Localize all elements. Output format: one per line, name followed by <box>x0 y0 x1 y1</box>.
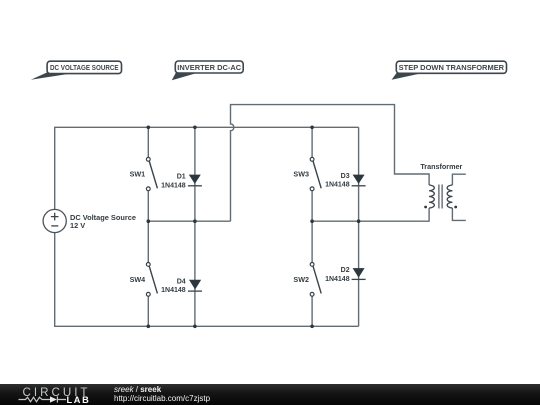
svg-text:SW3: SW3 <box>293 170 309 179</box>
voltage source V1 <box>43 209 66 232</box>
diode D3 <box>352 175 366 186</box>
wire SW2 branch <box>311 221 313 326</box>
wire D3 D2 branch <box>358 127 360 326</box>
wire bottom rail <box>55 233 359 327</box>
svg-text:Transformer: Transformer <box>420 162 462 171</box>
callout INVERTER DC-AC <box>172 61 243 80</box>
voltage source label <box>70 213 136 230</box>
wire node A vertical with hop over top rail <box>230 105 429 222</box>
svg-text:1N4148: 1N4148 <box>161 182 186 189</box>
wire left mid node <box>148 220 230 222</box>
transformer T1 phase dots <box>424 206 427 209</box>
label D4 1N4148 <box>161 278 186 294</box>
svg-text:1N4148: 1N4148 <box>325 182 350 189</box>
svg-text:12 V: 12 V <box>70 221 85 230</box>
callout STEP DOWN TRANSFORMER <box>392 61 507 79</box>
svg-text:DC VOLTAGE SOURCE: DC VOLTAGE SOURCE <box>50 63 119 72</box>
diode D1 <box>188 175 202 186</box>
wire SW1 branch <box>147 127 149 221</box>
svg-text:D1: D1 <box>177 174 186 181</box>
svg-text:LAB: LAB <box>67 395 91 405</box>
svg-text:D3: D3 <box>341 173 350 180</box>
switch SW1 <box>146 157 157 190</box>
svg-text:INVERTER DC-AC: INVERTER DC-AC <box>177 63 241 72</box>
wire top rail and left rail <box>55 127 359 209</box>
svg-text:1N4148: 1N4148 <box>325 276 350 283</box>
svg-text:SW1: SW1 <box>130 170 146 179</box>
svg-text:1N4148: 1N4148 <box>161 287 186 294</box>
callout DC VOLTAGE SOURCE <box>31 61 122 79</box>
wire SW3 branch <box>311 127 313 221</box>
CircuitLab logo <box>0 384 105 405</box>
switch SW3 <box>310 157 321 190</box>
diode D4 <box>188 280 202 291</box>
wire transformer secondary stubs <box>452 174 465 220</box>
transformer T1 core <box>439 185 442 209</box>
wire right mid node to transformer primary bottom <box>312 208 429 221</box>
label D1 1N4148 <box>161 174 186 190</box>
wire SW4 branch <box>147 221 149 326</box>
transformer T1 secondary coil <box>447 185 452 208</box>
diode D2 <box>352 268 366 279</box>
transformer T1 primary coil <box>429 185 434 208</box>
footer bar <box>0 384 540 405</box>
label D3 1N4148 <box>325 173 350 189</box>
svg-text:SW4: SW4 <box>130 275 146 284</box>
label D2 1N4148 <box>325 267 350 283</box>
switch SW2 <box>310 263 321 297</box>
node junction dots <box>147 126 361 329</box>
switch SW4 <box>146 263 157 297</box>
svg-text:STEP DOWN TRANSFORMER: STEP DOWN TRANSFORMER <box>399 63 505 72</box>
svg-text:D2: D2 <box>341 267 350 274</box>
footer credit text <box>114 385 210 403</box>
wire D1 D4 branch <box>194 127 196 326</box>
svg-text:SW2: SW2 <box>293 275 309 284</box>
svg-text:D4: D4 <box>177 278 186 285</box>
